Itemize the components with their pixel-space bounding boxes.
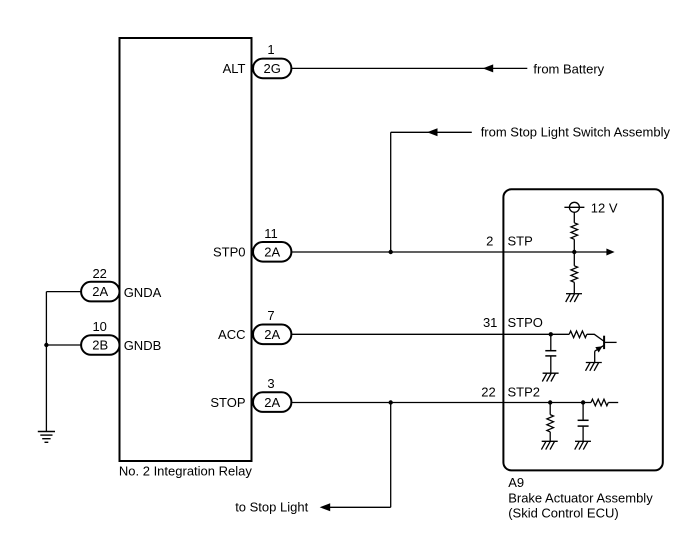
svg-text:7: 7 (267, 308, 274, 323)
svg-text:from Battery: from Battery (533, 62, 604, 77)
svg-text:STPO: STPO (508, 315, 543, 330)
svg-text:ACC: ACC (218, 327, 245, 342)
svg-text:ALT: ALT (223, 61, 246, 76)
svg-text:11: 11 (264, 226, 278, 241)
svg-text:STP: STP (508, 234, 533, 249)
svg-text:(Skid Control ECU): (Skid Control ECU) (508, 506, 619, 521)
svg-text:A9: A9 (508, 475, 524, 490)
svg-text:2A: 2A (264, 245, 280, 260)
svg-text:Brake Actuator Assembly: Brake Actuator Assembly (508, 490, 653, 505)
svg-text:2G: 2G (264, 61, 281, 76)
svg-text:1: 1 (267, 42, 274, 57)
svg-text:STP2: STP2 (508, 385, 541, 400)
svg-text:31: 31 (483, 315, 497, 330)
svg-text:STP0: STP0 (213, 245, 246, 260)
svg-text:2A: 2A (92, 284, 108, 299)
svg-text:3: 3 (267, 376, 274, 391)
svg-text:GNDB: GNDB (124, 338, 162, 353)
svg-text:GNDA: GNDA (124, 285, 162, 300)
svg-text:10: 10 (92, 319, 106, 334)
svg-text:12 V: 12 V (591, 200, 618, 215)
svg-text:STOP: STOP (210, 395, 245, 410)
svg-text:22: 22 (92, 266, 106, 281)
svg-text:No. 2 Integration Relay: No. 2 Integration Relay (119, 464, 252, 479)
svg-text:to Stop Light: to Stop Light (235, 499, 308, 514)
svg-text:from Stop Light Switch Assembl: from Stop Light Switch Assembly (481, 125, 671, 140)
svg-text:2A: 2A (264, 395, 280, 410)
svg-text:2A: 2A (264, 327, 280, 342)
svg-text:2: 2 (486, 234, 493, 249)
svg-text:2B: 2B (92, 338, 108, 353)
svg-text:22: 22 (481, 385, 495, 400)
